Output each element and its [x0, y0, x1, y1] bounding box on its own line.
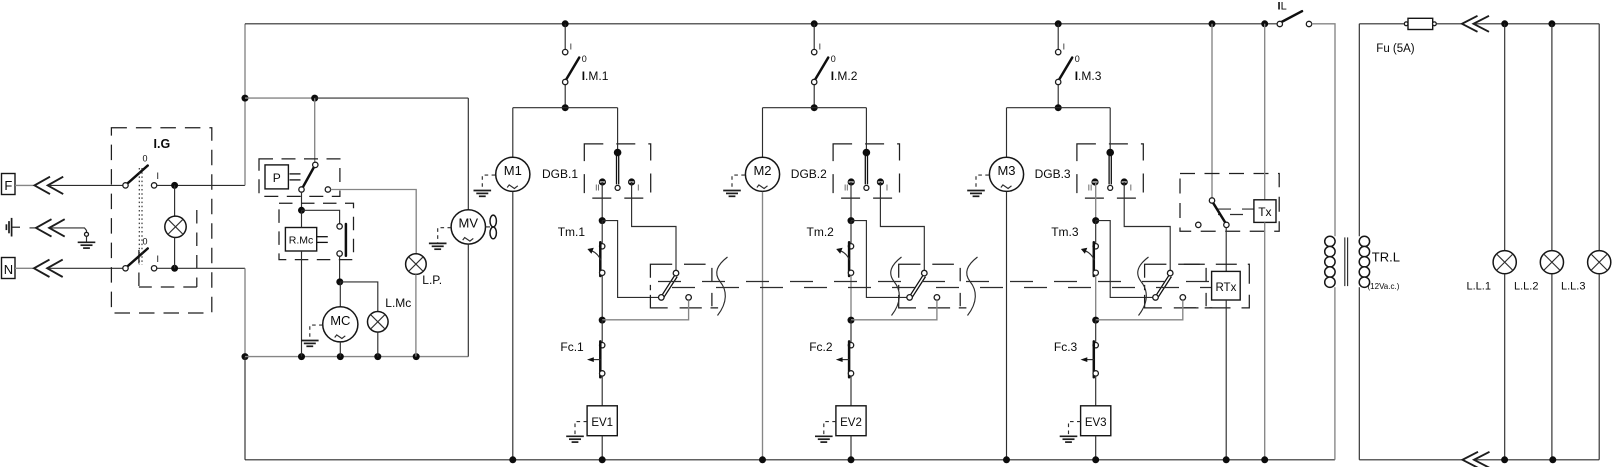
linkage line lower	[650, 287, 1212, 289]
node sub-bus L.Mc	[374, 353, 381, 360]
wire MV return	[467, 244, 469, 357]
wire M1 feed	[512, 108, 514, 157]
wire M2 feed	[762, 108, 764, 157]
svg-text:II: II	[1088, 184, 1092, 193]
wire F stub	[15, 184, 34, 186]
node DGB.2 common	[863, 149, 871, 157]
selector DGB.2 dashed enclosure	[833, 144, 899, 198]
svg-text:Fc.2: Fc.2	[809, 340, 833, 354]
wire DGB.2 feed	[865, 108, 867, 153]
node Fc.2 top	[848, 317, 855, 324]
node P feeder corner	[311, 95, 318, 102]
svg-text:0: 0	[143, 237, 148, 247]
wire DGB.2 II down	[850, 182, 852, 221]
svg-text:I: I	[1130, 184, 1132, 193]
svg-text:II: II	[595, 184, 599, 193]
svg-text:M3: M3	[997, 163, 1015, 178]
wire L.L.1 return	[1504, 274, 1506, 460]
wire fuse to arrows	[1436, 23, 1462, 25]
limit switch arrow Fc.2	[842, 359, 849, 361]
svg-text:L.L.3: L.L.3	[1561, 280, 1585, 292]
wire neutral drop lower	[244, 357, 246, 460]
switch I.M.3	[1057, 24, 1059, 50]
node bus I.M.3	[1055, 20, 1062, 27]
wire earth to ground point	[52, 228, 87, 232]
wire L.P. feed	[331, 190, 417, 254]
node Tx bottom	[1261, 456, 1268, 463]
wire L.L.1 drop	[1504, 24, 1506, 251]
relay contact 1 dashed enclosure	[650, 264, 718, 308]
wire coil return	[301, 251, 303, 357]
wire P to relay node	[301, 192, 303, 210]
switch I.G pole N	[127, 249, 148, 268]
svg-text:EV2: EV2	[840, 417, 862, 429]
node Tm.2 top	[848, 217, 855, 224]
earth input symbol	[6, 218, 20, 237]
connector arrows N	[34, 260, 50, 277]
ground link MC	[310, 325, 323, 340]
connector arrows earth	[36, 219, 52, 236]
svg-text:L.L.1: L.L.1	[1467, 280, 1491, 292]
wire M2 return	[762, 192, 764, 460]
svg-text:0: 0	[582, 54, 587, 64]
node Tm.3 top	[1092, 217, 1099, 224]
contact II of DGB.2	[848, 178, 855, 185]
switch I.G pole F	[127, 166, 148, 185]
svg-text:Tx: Tx	[1258, 205, 1271, 219]
svg-text:0: 0	[831, 54, 836, 64]
lamp L.Mc	[368, 312, 389, 333]
relay contact 1 blade	[662, 275, 675, 296]
limit switch Fc.1	[601, 320, 603, 343]
terminal N	[2, 258, 16, 279]
selector blade DGB.3	[1108, 155, 1110, 184]
wire contact 3 return	[1096, 300, 1183, 320]
relay contact 3 terminals	[1167, 270, 1173, 276]
ground EV2	[815, 435, 833, 437]
svg-text:MV: MV	[459, 216, 479, 231]
svg-text:Tm.2: Tm.2	[807, 225, 835, 239]
wire secondary top bus	[1475, 23, 1600, 25]
break mark 4	[1138, 257, 1149, 316]
relay contact R.Mc	[345, 224, 348, 256]
wire F out of I.G	[157, 184, 245, 186]
svg-text:Tm.3: Tm.3	[1051, 225, 1079, 239]
node M1 bottom	[509, 456, 516, 463]
fan blades MV	[486, 226, 490, 228]
selector blade DGB.2	[864, 155, 866, 184]
thermostat Tm.2	[850, 221, 852, 244]
relay contact 3 blade	[1156, 275, 1169, 296]
ground link M2	[732, 175, 745, 190]
limit switch Fc.3	[1095, 320, 1097, 343]
contact I of DGB.2	[877, 178, 884, 185]
node MC branch	[336, 278, 343, 285]
svg-text:I: I	[157, 171, 160, 181]
switch contact of Tx	[1213, 203, 1225, 223]
svg-text:TR.L: TR.L	[1372, 250, 1400, 265]
wire contact 2 return	[851, 300, 937, 320]
terminal F	[2, 174, 16, 195]
wire M1 return	[512, 192, 514, 460]
svg-text:(12Va.c.): (12Va.c.)	[1368, 282, 1400, 291]
svg-text:I: I	[886, 184, 888, 193]
wire branch M1	[513, 107, 618, 109]
neutral sub-bus	[245, 356, 468, 358]
svg-text:Fc.1: Fc.1	[560, 340, 584, 354]
motor M2	[745, 157, 779, 191]
lamp L.L.1	[1493, 251, 1516, 274]
wire L.L.3 drop	[1598, 24, 1600, 251]
switch contact P	[303, 167, 315, 188]
node RTx bottom	[1223, 456, 1230, 463]
svg-text:DGB.2: DGB.2	[791, 167, 827, 181]
node sub-bus L.P.	[413, 353, 420, 360]
svg-text:Fc.3: Fc.3	[1054, 340, 1078, 354]
ground link EV1	[575, 422, 587, 436]
mechanical link P	[290, 173, 301, 175]
svg-text:L.P.: L.P.	[422, 273, 442, 287]
wire branch M3	[1007, 107, 1111, 109]
pilot lamp L.P.	[406, 254, 427, 275]
wire DGB.3 II down	[1095, 182, 1097, 221]
contact II of DGB.1	[599, 178, 606, 185]
switch I.M.1	[564, 24, 566, 50]
thermostat Tm.1	[601, 221, 603, 244]
node L.L.2 top	[1548, 20, 1555, 27]
wire neutral drop	[244, 268, 246, 357]
motor M3	[989, 157, 1023, 191]
svg-text:EV1: EV1	[591, 417, 613, 429]
wire Tx switch feed	[1211, 24, 1213, 198]
svg-text:0: 0	[1075, 54, 1080, 64]
wire jumper to contact column	[602, 221, 661, 298]
wire DGB.1 I to relay contact	[632, 182, 676, 270]
contact II of DGB.3	[1091, 178, 1098, 185]
relay coil Tx	[1254, 200, 1276, 223]
node L.L.2 bottom	[1549, 456, 1556, 463]
wire M3 return	[1006, 192, 1008, 460]
wire EV3 return	[1095, 436, 1097, 460]
svg-text:M1: M1	[504, 163, 522, 178]
wire to L.Mc	[340, 282, 378, 312]
solenoid valve EV3	[1081, 406, 1111, 436]
top supply bus	[245, 23, 1277, 25]
svg-text:MC: MC	[330, 313, 350, 328]
ground link M3	[976, 175, 989, 190]
node EV3 bottom	[1092, 456, 1099, 463]
node EV2 bottom	[848, 456, 855, 463]
break mark 2	[891, 257, 902, 316]
svg-text:II: II	[844, 184, 848, 193]
solenoid valve EV2	[836, 406, 866, 436]
relay contact 3 dashed enclosure	[1145, 264, 1213, 308]
linkage line upper	[658, 281, 1212, 283]
node neutral sub-bus	[242, 353, 249, 360]
limit switch arrow Fc.3	[1087, 359, 1094, 361]
node I.M.3 branch	[1055, 104, 1062, 111]
transformer TR.L primary	[1325, 236, 1335, 246]
node Fc.1 top	[599, 317, 606, 324]
svg-text:I: I	[157, 254, 160, 264]
wire DGB.2 I to relay contact	[880, 182, 924, 270]
svg-text:I: I	[1063, 43, 1065, 52]
wire Tm.3 down	[1095, 276, 1097, 321]
I.G inner dashed enclosure	[139, 210, 197, 287]
ground point node	[85, 232, 89, 236]
svg-text:0: 0	[143, 154, 148, 164]
svg-text:I.M.3: I.M.3	[1075, 69, 1102, 83]
svg-text:M2: M2	[753, 163, 771, 178]
wire jumper to contact column	[851, 221, 910, 298]
wire to MC	[339, 282, 341, 307]
Tx group dashed enclosure	[1180, 174, 1279, 232]
connector arrows F	[35, 177, 51, 194]
node L.L.1 top	[1501, 20, 1508, 27]
wire jumper to contact column	[1096, 221, 1156, 298]
node I.M.1 branch	[562, 104, 569, 111]
ground M2	[723, 190, 741, 192]
wire F to I.G	[49, 184, 126, 186]
motor M1	[496, 157, 530, 191]
pressure switch group dashed enclosure	[259, 159, 340, 197]
wire L.Mc return	[377, 332, 379, 357]
node bus Tx switch	[1209, 20, 1216, 27]
wire DGB.3 feed	[1109, 108, 1111, 153]
node sub-bus MC	[337, 353, 344, 360]
wire Tm.2 down	[850, 276, 852, 321]
wire Fc.3 to EV3	[1095, 376, 1097, 406]
svg-text:I.G: I.G	[154, 137, 171, 151]
selector DGB.3 dashed enclosure	[1077, 144, 1143, 198]
transformer core	[1344, 237, 1346, 286]
wire secondary bottom left	[1358, 287, 1360, 460]
node relay R.Mc	[298, 207, 305, 214]
wire branch M2	[763, 107, 867, 109]
solenoid valve EV1	[587, 406, 617, 436]
wire earth stub	[30, 227, 37, 229]
bottom neutral bus	[245, 459, 1335, 461]
switch IL	[1281, 11, 1302, 22]
wire Tm.1 down	[601, 276, 603, 321]
pressure switch P	[265, 165, 288, 189]
node L.L.1 bottom	[1501, 456, 1508, 463]
selector DGB.1 dashed enclosure	[584, 144, 650, 198]
svg-text:L.L.2: L.L.2	[1514, 280, 1538, 292]
wire DGB.3 I to relay contact	[1124, 182, 1170, 270]
wire phase riser	[244, 24, 246, 186]
ground MV	[429, 242, 447, 244]
ground link EV2	[824, 422, 836, 436]
node Tm.1 top	[599, 217, 606, 224]
svg-text:N: N	[4, 262, 13, 277]
relay coil R.Mc	[285, 228, 316, 252]
wire lamp return	[174, 238, 176, 269]
svg-text:DGB.3: DGB.3	[1035, 167, 1071, 181]
limit switch Fc.2	[850, 320, 852, 343]
node I.M.2 branch	[811, 104, 818, 111]
wire contact to MC node	[339, 256, 341, 282]
svg-text:I: I	[819, 43, 821, 52]
wire node to coil	[301, 210, 303, 227]
svg-text:F: F	[4, 178, 12, 193]
node M3 bottom	[1003, 456, 1010, 463]
wire RTx return	[1225, 300, 1227, 460]
ground link M1	[482, 175, 495, 190]
ground link MV	[438, 228, 451, 243]
svg-text:P: P	[273, 171, 281, 185]
wire EV2 return	[850, 436, 852, 460]
ground M1	[474, 190, 492, 192]
wire DGB.1 II down	[601, 182, 603, 221]
svg-text:EV3: EV3	[1085, 417, 1107, 429]
node DGB.3 common	[1106, 149, 1114, 157]
node DGB.1 common	[614, 149, 622, 157]
wire EV1 return	[601, 436, 603, 460]
wire Tx coil return	[1264, 222, 1266, 459]
wire L.P. return	[415, 274, 417, 356]
relay contact 2 blade	[910, 275, 923, 296]
ground MC	[301, 340, 319, 342]
svg-text:I.M.1: I.M.1	[582, 69, 609, 83]
svg-text:I: I	[570, 43, 572, 52]
wire L.L.3 return	[1598, 274, 1600, 460]
wire Fc.2 to EV2	[850, 376, 852, 406]
svg-text:Tm.1: Tm.1	[558, 225, 586, 239]
svg-text:I.M.2: I.M.2	[831, 69, 858, 83]
open contact of Tx switch	[1196, 222, 1201, 227]
break mark 1	[717, 257, 728, 316]
node phase branch	[242, 95, 249, 102]
thermostat arrow Tm.1	[592, 251, 601, 260]
node bus Tx coil	[1261, 20, 1268, 27]
node M2 bottom	[759, 456, 766, 463]
wire Fc.1 to EV1	[601, 376, 603, 406]
ground (earth) symbol	[86, 236, 88, 242]
wire DGB.1 feed	[617, 108, 619, 153]
wire M3 feed	[1006, 108, 1008, 157]
wire MC return	[339, 342, 341, 357]
mechanical link Tx	[1218, 208, 1254, 210]
signal lamp in I.G	[165, 216, 186, 237]
relay contact 2 dashed enclosure	[899, 264, 967, 308]
svg-text:R.Mc: R.Mc	[289, 235, 314, 247]
svg-text:RTx: RTx	[1215, 282, 1236, 294]
lamp L.L.2	[1540, 251, 1563, 274]
node bus I.M.2	[811, 20, 818, 27]
selector blade DGB.1	[616, 155, 618, 184]
wire MV feeder	[315, 97, 469, 99]
wire contact 1 return	[602, 300, 688, 320]
mechanical link dotted	[138, 168, 140, 265]
contact I of DGB.1	[628, 178, 635, 185]
relay group dashed enclosure	[279, 203, 354, 259]
node N-lamp junction	[171, 265, 178, 272]
connector arrows secondary top	[1462, 16, 1478, 32]
limit switch arrow Fc.1	[593, 359, 600, 361]
svg-text:L.Mc: L.Mc	[385, 296, 411, 310]
svg-text:DGB.1: DGB.1	[542, 167, 578, 181]
wire IL to transformer	[1312, 24, 1335, 237]
node F-lamp junction	[171, 182, 178, 189]
mechanical link R.Mc	[317, 236, 328, 238]
remote control coil RTx	[1212, 271, 1241, 300]
svg-text:I: I	[637, 184, 639, 193]
motor MC	[323, 307, 358, 342]
wire lamp feed	[174, 185, 176, 216]
switch I.M.2	[813, 24, 815, 50]
lamp L.L.3	[1588, 251, 1611, 274]
wire Tx coil feed	[1264, 24, 1266, 200]
wire node to contact	[302, 210, 340, 223]
wire P drop	[314, 98, 316, 163]
thermostat arrow Tm.3	[1085, 251, 1094, 260]
wire feeder to P	[245, 97, 315, 99]
svg-text:IL: IL	[1278, 1, 1287, 13]
node Fc.3 top	[1092, 317, 1099, 324]
fuse Fu	[1404, 22, 1408, 26]
ground EV3	[1060, 435, 1078, 437]
connector arrows secondary bottom	[1463, 452, 1479, 467]
motor MV	[451, 210, 485, 244]
wire N out of I.G	[157, 267, 245, 269]
thermostat Tm.3	[1095, 221, 1097, 244]
break mark 3	[967, 257, 978, 316]
node bus I.M.1	[562, 20, 569, 27]
RTx group dashed enclosure	[1184, 264, 1250, 308]
contact I of DGB.3	[1121, 178, 1128, 185]
svg-text:Fu (5A): Fu (5A)	[1376, 43, 1415, 55]
relay contact 1 terminals	[673, 270, 679, 276]
wire Tx switch to RTx	[1225, 228, 1227, 272]
ground link EV3	[1069, 422, 1081, 436]
relay contact 2 terminals	[922, 270, 928, 276]
transformer TR.L secondary	[1359, 236, 1369, 246]
switch group I.G dashed enclosure	[111, 128, 211, 313]
ground M3	[967, 190, 985, 192]
wire L.L.2 drop	[1551, 24, 1553, 251]
ground EV1	[566, 435, 584, 437]
wire secondary bottom bus	[1475, 459, 1599, 461]
wire N stub	[15, 267, 33, 269]
thermostat arrow Tm.2	[841, 251, 850, 260]
wire N to I.G	[49, 267, 126, 269]
wire secondary top	[1358, 24, 1360, 237]
node EV1 bottom	[599, 456, 606, 463]
wire L.L.2 return	[1551, 274, 1553, 460]
node sub-bus R.Mc	[298, 353, 305, 360]
wire MV feed	[467, 98, 469, 210]
wire primary return	[1334, 287, 1336, 460]
